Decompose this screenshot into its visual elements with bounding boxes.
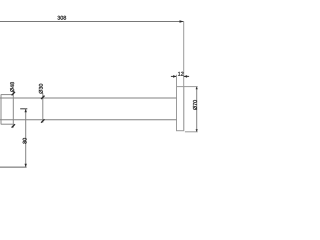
dimension D70 bottom extension line <box>185 131 198 133</box>
dimension 12 text <box>178 72 183 76</box>
dimension D48 top tick <box>12 92 15 95</box>
dimension D70 top arrow <box>196 87 198 90</box>
dimension 308 line <box>0 21 184 23</box>
tube top line <box>0 97 177 99</box>
dimension D70 top extension line <box>184 86 198 88</box>
dimension D70 line <box>196 87 198 132</box>
dimension D48 text <box>10 82 14 92</box>
reference line below dimension 80 <box>0 166 27 168</box>
dimension 12 left tail and arrow <box>171 75 177 77</box>
tube bottom line <box>0 119 177 121</box>
centerline tick for dimension 80 <box>20 108 27 110</box>
dimension D30 bottom tick <box>41 119 44 122</box>
connector collar top <box>1 94 14 96</box>
dimension D48 bottom tick <box>12 124 15 127</box>
dimension 308 text <box>58 16 67 20</box>
connector collar left edge <box>0 95 2 125</box>
dimension D70 text <box>193 100 197 110</box>
dimension D30 top tick <box>41 96 44 99</box>
dimension 12 left extension line <box>176 75 178 87</box>
connector collar bottom <box>1 123 14 125</box>
dimension 80 top arrow <box>25 109 27 112</box>
dimension D30 text <box>39 84 43 94</box>
wall flange plate <box>177 87 184 131</box>
dimension 308 extension line <box>183 22 185 131</box>
dimension 80 bottom arrow <box>25 164 27 167</box>
dimension 80 text <box>23 138 27 144</box>
dimension 12 right tail and arrow <box>184 75 189 77</box>
dimension 308 right arrow <box>180 20 184 23</box>
dimension D70 bottom arrow <box>196 129 198 132</box>
dimension D30 line <box>42 93 44 122</box>
connector collar right edge / dimension D48 line <box>12 92 14 128</box>
dimension 80 line <box>25 109 27 167</box>
